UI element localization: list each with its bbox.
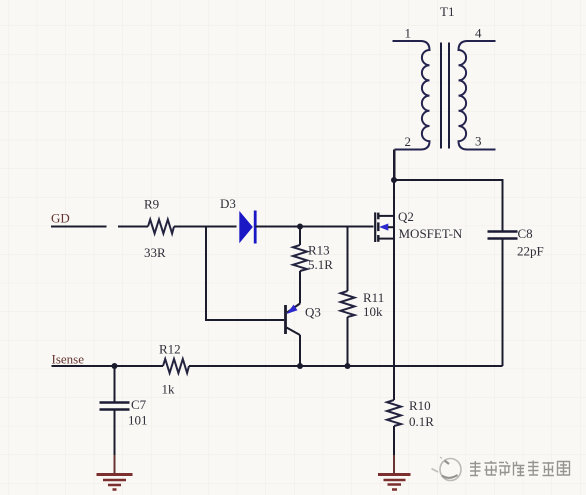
svg-text:10k: 10k <box>363 304 383 319</box>
svg-text:101: 101 <box>128 413 148 428</box>
wire pin2 to drain <box>394 150 396 181</box>
junction dot Q3 collector <box>297 363 303 369</box>
svg-text:C8: C8 <box>518 226 533 241</box>
transistor Q3 <box>286 304 301 336</box>
resistor R13 <box>293 245 307 271</box>
svg-text:D3: D3 <box>220 196 236 211</box>
wire C7 bottom lead <box>114 410 116 456</box>
wire D3 to gate <box>256 226 374 228</box>
wire branch to Q3 base <box>206 227 284 321</box>
svg-text:Q3: Q3 <box>305 305 321 320</box>
wire drain/source vertical <box>393 150 395 401</box>
wire Q3 collector to rail <box>299 335 301 366</box>
wire R10 ground stub <box>393 455 395 475</box>
junction dot drain <box>391 177 397 183</box>
junction dot R11 bottom <box>345 363 351 369</box>
resistor R12 <box>163 359 189 373</box>
wire R13 bottom lead <box>299 271 301 304</box>
wire GD segment 1 <box>51 226 107 228</box>
resistor R11 <box>341 291 355 317</box>
svg-text:R13: R13 <box>308 243 330 258</box>
capacitor C8 <box>488 232 518 239</box>
wire C7 top lead <box>114 366 116 402</box>
svg-text:R10: R10 <box>409 398 431 413</box>
wire R11 top lead <box>347 227 349 292</box>
svg-text:3: 3 <box>475 134 482 149</box>
wire drain to C8 <box>394 180 503 231</box>
wire R10 bottom lead <box>393 426 395 455</box>
transformer T1 core <box>441 43 449 149</box>
svg-text:Q2: Q2 <box>398 209 414 224</box>
junction dot R13 top <box>297 224 303 230</box>
wire R11 bottom lead <box>347 317 349 366</box>
wire Isense to R12 <box>52 365 164 367</box>
svg-text:R11: R11 <box>363 290 384 305</box>
svg-text:C7: C7 <box>131 397 147 412</box>
svg-text:4: 4 <box>475 26 482 41</box>
svg-text:1: 1 <box>405 26 412 41</box>
wire C7 ground stub <box>114 455 116 475</box>
watermark logo <box>432 457 462 481</box>
transformer T1 secondary winding <box>459 41 496 150</box>
svg-text:T1: T1 <box>440 4 454 19</box>
junction dot C7 top <box>112 363 118 369</box>
resistor R10 <box>387 400 401 426</box>
svg-text:R9: R9 <box>144 197 159 212</box>
wire R9 to D3 <box>174 226 237 228</box>
transformer T1 primary winding <box>393 41 430 150</box>
svg-text:2: 2 <box>405 134 412 149</box>
ground R10 <box>378 475 411 490</box>
wire R13 top lead <box>299 227 301 246</box>
mosfet Q2 <box>375 212 394 242</box>
wire bottom rail <box>189 365 503 367</box>
svg-text:33R: 33R <box>144 245 166 260</box>
capacitor C7 <box>100 403 130 410</box>
svg-text:0.1R: 0.1R <box>409 414 434 429</box>
ground C7 <box>97 475 133 490</box>
svg-text:5.1R: 5.1R <box>308 257 333 272</box>
wire C8 bottom lead <box>502 239 504 366</box>
watermark text <box>471 461 571 476</box>
svg-text:MOSFET-N: MOSFET-N <box>399 226 463 241</box>
wire GD segment 2 <box>118 226 148 228</box>
diode D3 <box>239 211 255 244</box>
svg-text:GD: GD <box>51 211 70 226</box>
svg-text:Isense: Isense <box>52 352 85 367</box>
svg-text:1k: 1k <box>162 382 176 397</box>
svg-text:R12: R12 <box>159 342 181 357</box>
resistor R9 <box>148 220 174 234</box>
svg-text:22pF: 22pF <box>517 244 544 259</box>
